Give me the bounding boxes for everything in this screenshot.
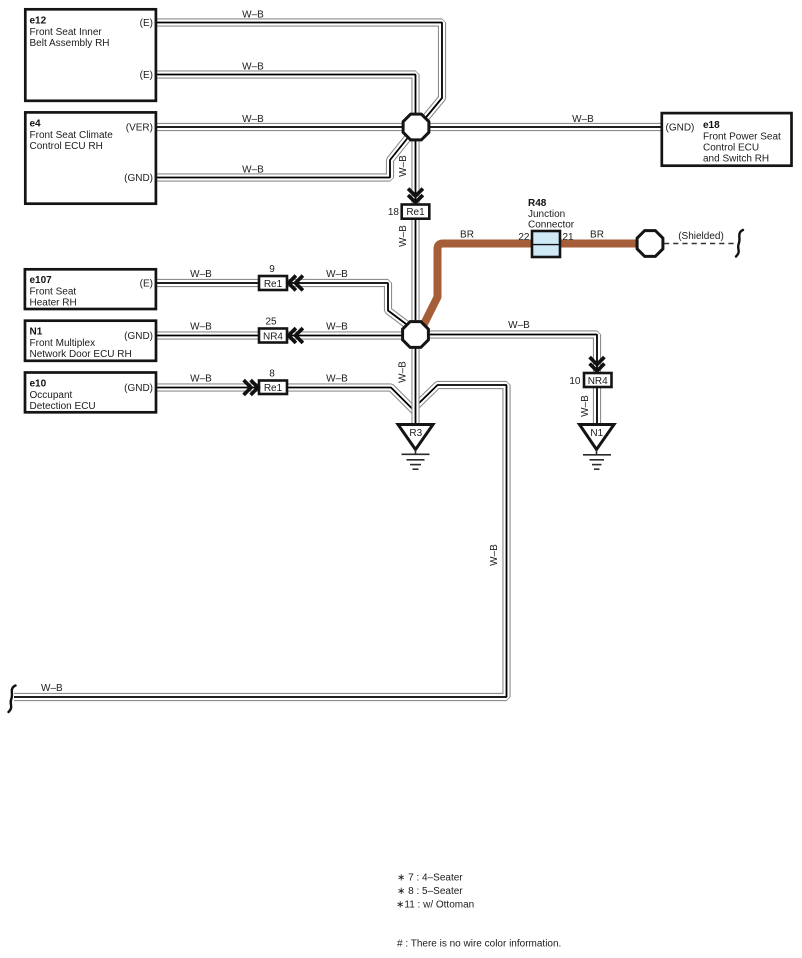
svg-text:8: 8 bbox=[269, 369, 275, 380]
wire e12 pin E1 to junction J1 (W-B) bbox=[156, 23, 442, 122]
svg-text:(VER): (VER) bbox=[126, 123, 153, 134]
connector Re1 pin 8 box bbox=[259, 381, 287, 395]
chevrons above connector NR4 pin 10 bbox=[590, 357, 605, 364]
svg-text:W–B: W–B bbox=[398, 225, 409, 247]
svg-text:Front Seat: Front Seat bbox=[30, 287, 77, 298]
svg-text:W–B: W–B bbox=[41, 683, 63, 694]
junction node J2 (octagon) bbox=[403, 322, 429, 348]
svg-text:e12: e12 bbox=[30, 16, 47, 27]
wire N1 pin GND to connector NR4 pin 25 (W-B) bbox=[156, 335, 260, 337]
svg-text:W–B: W–B bbox=[242, 10, 264, 21]
wire e12 pin E2 to junction J1 (W-B) bbox=[156, 75, 416, 122]
component box e12 Front Seat Inner Belt Assembly RH bbox=[25, 9, 156, 101]
component box e18 Front Power Seat Control ECU and Switch RH bbox=[662, 113, 792, 166]
svg-text:(Shielded): (Shielded) bbox=[678, 231, 724, 242]
wire connector NR4 pin 25 to junction J2 (W-B) bbox=[287, 335, 410, 337]
svg-text:Control ECU RH: Control ECU RH bbox=[30, 141, 103, 152]
wire BR shielded from junction J2 to R48 and shield node bbox=[423, 244, 645, 327]
chevrons left of Re1 pin 8 bbox=[244, 380, 251, 395]
svg-text:W–B: W–B bbox=[326, 269, 348, 280]
svg-text:N1: N1 bbox=[590, 428, 603, 439]
svg-text:Network Door ECU RH: Network Door ECU RH bbox=[30, 349, 132, 360]
svg-text:e18: e18 bbox=[703, 120, 720, 131]
svg-text:Belt Assembly RH: Belt Assembly RH bbox=[30, 38, 110, 49]
wire e10 pin GND to connector Re1 pin 8 (W-B) bbox=[156, 387, 260, 389]
svg-text:18: 18 bbox=[388, 207, 400, 218]
svg-text:Re1: Re1 bbox=[406, 207, 425, 218]
svg-text:Re1: Re1 bbox=[264, 279, 283, 290]
ground R3 hatch bbox=[415, 450, 417, 455]
svg-text:R3: R3 bbox=[409, 428, 422, 439]
dashed shield line bbox=[664, 243, 735, 245]
svg-text:e107: e107 bbox=[30, 275, 53, 286]
svg-text:Front Seat Climate: Front Seat Climate bbox=[30, 130, 114, 141]
svg-text:21: 21 bbox=[563, 232, 575, 243]
svg-text:(E): (E) bbox=[140, 18, 153, 29]
svg-text:Heater RH: Heater RH bbox=[30, 298, 77, 309]
svg-text:(GND): (GND) bbox=[124, 383, 153, 394]
break squiggle bottom left bbox=[9, 686, 16, 713]
svg-text:W–B: W–B bbox=[489, 544, 500, 566]
ground N1 triangle bbox=[580, 425, 615, 450]
wire connector Re1 pin 9 to junction J2 (W-B) bbox=[287, 283, 410, 327]
svg-text:∗11 : w/ Ottoman: ∗11 : w/ Ottoman bbox=[396, 900, 474, 911]
connector NR4 pin 10 box bbox=[584, 373, 612, 387]
svg-text:Control ECU: Control ECU bbox=[703, 143, 759, 154]
svg-text:(GND): (GND) bbox=[124, 173, 153, 184]
wire e4 pin GND to junction J1 (W-B) bbox=[156, 138, 408, 178]
chevrons right of Re1 pin 9 bbox=[289, 276, 296, 291]
svg-text:22: 22 bbox=[518, 232, 530, 243]
wire junction J1 to e18 pin GND (W-B) bbox=[414, 126, 662, 128]
svg-text:W–B: W–B bbox=[242, 114, 264, 125]
component box e10 Occupant Detection ECU bbox=[25, 373, 156, 413]
component box e107 Front Seat Heater RH bbox=[25, 269, 156, 309]
svg-text:W–B: W–B bbox=[242, 62, 264, 73]
ground R3 triangle bbox=[398, 425, 433, 450]
svg-text:Detection ECU: Detection ECU bbox=[30, 401, 96, 412]
svg-text:(E): (E) bbox=[140, 70, 153, 81]
svg-text:W–B: W–B bbox=[508, 320, 530, 331]
wire e107 pin E to connector Re1 pin 9 (W-B) bbox=[156, 282, 260, 284]
svg-text:Front Multiplex: Front Multiplex bbox=[30, 338, 96, 349]
svg-text:10: 10 bbox=[569, 376, 581, 387]
svg-text:Front Power Seat: Front Power Seat bbox=[703, 132, 781, 143]
svg-text:BR: BR bbox=[590, 230, 604, 241]
wire connector Re1 pin 8 to ground node R3 (W-B) bbox=[287, 388, 416, 413]
wire connector Re1 pin 18 down to junction J2 (W-B) bbox=[415, 219, 417, 331]
wire e4 pin VER to junction J1 (W-B) bbox=[156, 126, 416, 128]
svg-text:W–B: W–B bbox=[190, 269, 212, 280]
svg-text:W–B: W–B bbox=[398, 155, 409, 177]
svg-text:(E): (E) bbox=[140, 279, 153, 290]
svg-text:W–B: W–B bbox=[190, 322, 212, 333]
break squiggle right bbox=[736, 230, 743, 257]
svg-text:Junction: Junction bbox=[528, 209, 565, 220]
svg-text:R48: R48 bbox=[528, 198, 547, 209]
wire junction J2 to connector NR4 pin 10 (W-B) bbox=[420, 335, 597, 374]
wire connector NR4 pin 10 to ground N1 (W-B) bbox=[596, 387, 598, 425]
connector R48 junction connector box bbox=[532, 231, 560, 257]
junction node J1 (octagon) bbox=[403, 114, 429, 140]
svg-text:e10: e10 bbox=[30, 379, 47, 390]
svg-text:Occupant: Occupant bbox=[30, 390, 73, 401]
svg-text:Connector: Connector bbox=[528, 220, 575, 231]
chevrons above connector Re1 pin 18 bbox=[408, 189, 423, 196]
svg-text:W–B: W–B bbox=[326, 374, 348, 385]
wire junction J1 down to connector Re1 pin 18 (W-B) bbox=[415, 133, 417, 205]
shield node (octagon) bbox=[637, 231, 663, 257]
connector NR4 pin 25 box bbox=[259, 329, 287, 343]
svg-text:9: 9 bbox=[269, 264, 275, 275]
svg-text:W–B: W–B bbox=[326, 322, 348, 333]
chevrons right of NR4 pin 25 bbox=[289, 328, 296, 343]
svg-text:# : There is no wire color inf: # : There is no wire color information. bbox=[397, 939, 561, 950]
svg-text:Front Seat Inner: Front Seat Inner bbox=[30, 27, 103, 38]
component box N1 Front Multiplex Network Door ECU RH bbox=[25, 321, 156, 361]
connector Re1 pin 18 box bbox=[402, 205, 430, 219]
svg-text:BR: BR bbox=[460, 230, 474, 241]
svg-text:e4: e4 bbox=[30, 119, 42, 130]
svg-text:(GND): (GND) bbox=[124, 331, 153, 342]
connector Re1 pin 9 box bbox=[259, 276, 287, 290]
svg-text:and Switch RH: and Switch RH bbox=[703, 154, 769, 165]
svg-text:W–B: W–B bbox=[572, 114, 594, 125]
ground N1 hatch bbox=[596, 450, 598, 455]
svg-text:Re1: Re1 bbox=[264, 383, 283, 394]
wire junction J2 down to ground R3 (W-B) bbox=[415, 340, 417, 425]
wire long loop from ground R3 node to page edge (W-B) bbox=[14, 385, 507, 697]
svg-text:(GND): (GND) bbox=[666, 123, 695, 134]
svg-text:∗ 8 : 5–Seater: ∗ 8 : 5–Seater bbox=[397, 886, 463, 897]
svg-text:∗ 7 : 4–Seater: ∗ 7 : 4–Seater bbox=[397, 873, 463, 884]
svg-text:N1: N1 bbox=[30, 327, 43, 338]
svg-text:NR4: NR4 bbox=[588, 376, 608, 387]
svg-text:W–B: W–B bbox=[580, 395, 591, 417]
svg-text:W–B: W–B bbox=[398, 361, 409, 383]
component box e4 Front Seat Climate Control ECU RH bbox=[25, 112, 156, 203]
svg-text:NR4: NR4 bbox=[263, 331, 283, 342]
svg-text:W–B: W–B bbox=[190, 374, 212, 385]
svg-text:W–B: W–B bbox=[242, 165, 264, 176]
svg-text:25: 25 bbox=[265, 317, 277, 328]
